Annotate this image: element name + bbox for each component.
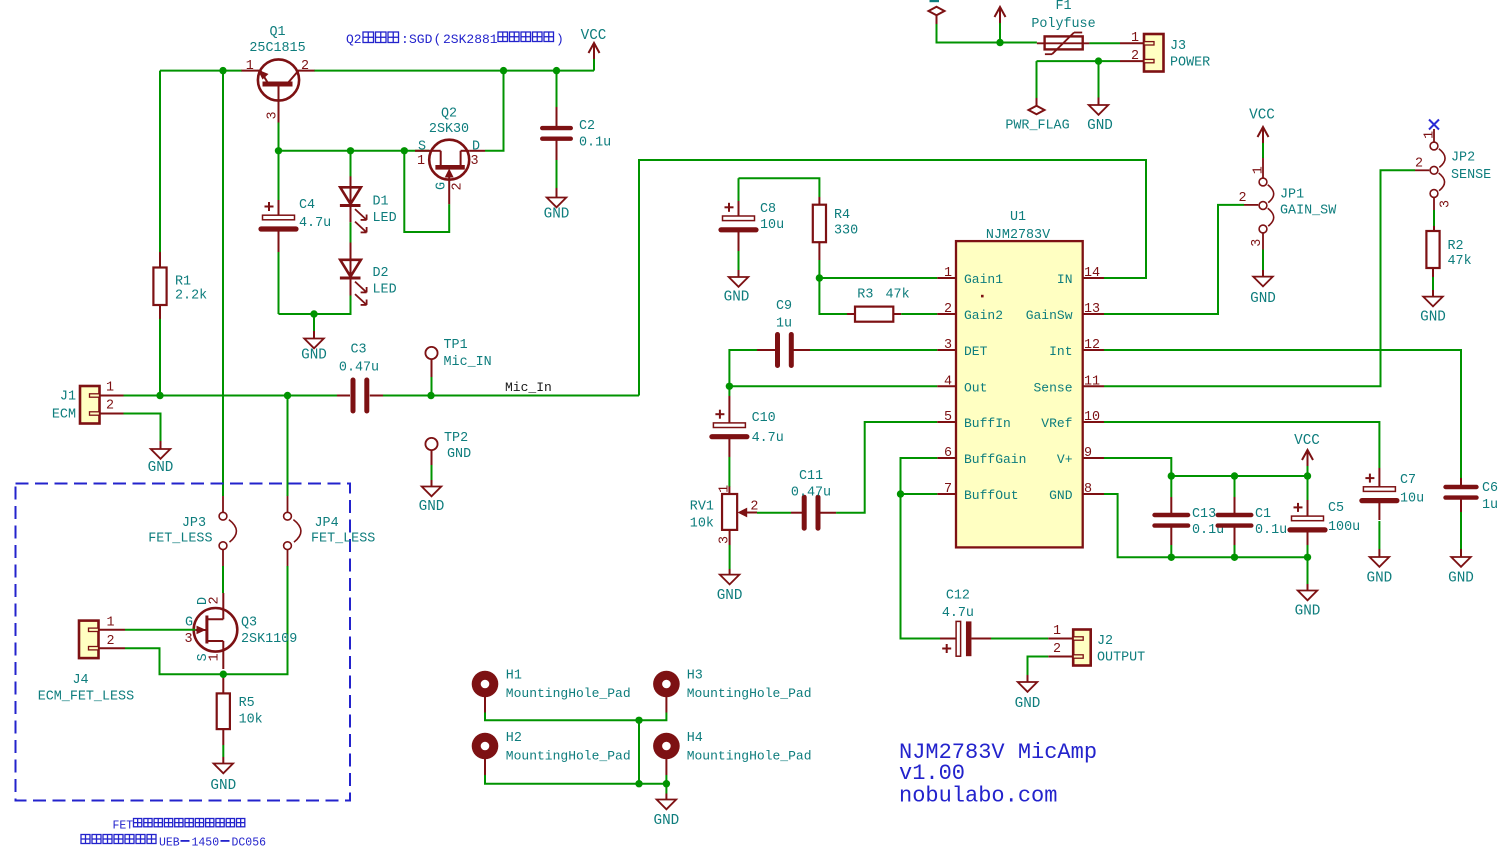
ground under C6	[1448, 549, 1474, 587]
connector J3 POWER	[1120, 31, 1210, 72]
wire C11 to BuffIn	[836, 422, 937, 513]
junction gnd rail	[310, 310, 317, 317]
svg-text:1: 1	[246, 59, 254, 74]
wire C12 to J2	[991, 638, 1048, 640]
svg-text:3: 3	[265, 111, 280, 119]
svg-text:NJM2783V: NJM2783V	[986, 228, 1050, 243]
junction Gain1 node	[816, 274, 823, 281]
capacitor C6	[1446, 478, 1499, 549]
svg-text:nobulabo.com: nobulabo.com	[899, 784, 1057, 809]
svg-text:VRef: VRef	[1041, 416, 1072, 431]
ground under J3	[1087, 61, 1113, 134]
ground under C5	[1295, 557, 1321, 619]
svg-text:2: 2	[1053, 642, 1061, 657]
svg-text:S: S	[418, 140, 426, 155]
svg-text:C7: C7	[1400, 473, 1416, 488]
svg-text:GND: GND	[717, 588, 743, 604]
svg-text:Polyfuse: Polyfuse	[1031, 17, 1095, 32]
svg-text:2SK2881: 2SK2881	[443, 32, 498, 47]
svg-text:3: 3	[944, 338, 952, 353]
capacitor C11	[757, 469, 836, 528]
svg-text:C13: C13	[1192, 507, 1216, 522]
capacitor C9	[757, 299, 810, 366]
capacitor C8	[721, 178, 784, 270]
mounting hole H3	[653, 669, 811, 713]
svg-text:R1: R1	[175, 275, 191, 290]
svg-text:C2: C2	[579, 119, 595, 134]
op-amp U1 NJM2783V	[937, 210, 1104, 547]
wire Sense to JP2	[1104, 170, 1415, 386]
svg-text:0.47u: 0.47u	[791, 486, 831, 501]
svg-text:J3: J3	[1170, 39, 1186, 54]
svg-text:47k: 47k	[886, 288, 910, 303]
junction H rail	[635, 717, 642, 724]
svg-text:0.1u: 0.1u	[579, 136, 611, 151]
wire R4 to Gain1	[818, 260, 820, 278]
svg-text:ECM: ECM	[52, 408, 76, 423]
svg-text:DET: DET	[964, 344, 988, 359]
wire VRef to C7	[1104, 422, 1379, 468]
wire Q1 collector to node	[278, 123, 280, 151]
wire J4 pin1 to gate	[125, 629, 195, 631]
svg-text:2: 2	[106, 634, 114, 649]
svg-text:2SK30: 2SK30	[429, 122, 469, 137]
wire J1 pin2 to gnd	[124, 414, 161, 442]
wire fuse to J3 pin1	[1089, 42, 1120, 44]
jumper JP3	[148, 496, 236, 566]
wire H2-H4 rail	[485, 775, 666, 784]
wire JP4 to source node	[223, 566, 287, 674]
svg-text:ECM_FET_LESS: ECM_FET_LESS	[38, 690, 134, 705]
note Q2 pinout (Japanese)	[346, 32, 564, 47]
svg-text:GND: GND	[301, 348, 327, 364]
capacitor C1	[1218, 476, 1287, 557]
svg-text:BuffGain: BuffGain	[964, 452, 1026, 467]
svg-text:2.2k: 2.2k	[175, 289, 207, 304]
wire mic riser to U1 IN	[639, 160, 1146, 396]
capacitor C12	[940, 589, 991, 657]
wire J4 pin2 to source node	[125, 648, 223, 674]
junction JP4 tap	[284, 392, 291, 399]
svg-text:F1: F1	[1055, 0, 1071, 14]
wire mic rail to C3	[160, 395, 337, 397]
resistor R4	[813, 197, 858, 260]
junction top rail x=223	[219, 67, 226, 74]
svg-text:GND: GND	[419, 499, 445, 515]
svg-text:1: 1	[1422, 131, 1437, 139]
svg-text:GND: GND	[1015, 696, 1041, 712]
svg-text:GND: GND	[544, 207, 570, 223]
wire D1-D2	[350, 222, 352, 242]
junction drain riser top	[500, 67, 507, 74]
svg-text:C1: C1	[1255, 507, 1271, 522]
svg-text:2: 2	[1238, 191, 1246, 206]
transistor Q3	[184, 593, 297, 669]
wire Q2 drain riser	[469, 71, 503, 151]
svg-text:1: 1	[106, 381, 114, 396]
svg-text:GND: GND	[1049, 488, 1073, 503]
junction C1 bottom	[1231, 554, 1238, 561]
svg-text:MountingHole_Pad: MountingHole_Pad	[506, 749, 631, 764]
junction collector node	[275, 147, 282, 154]
jumper JP2 SENSE	[1415, 129, 1491, 208]
no-connect X on JP2 pin1	[1429, 120, 1439, 130]
junction BuffOut node	[897, 490, 904, 497]
capacitor C5	[1290, 476, 1360, 557]
svg-text:Mic_In: Mic_In	[505, 380, 552, 395]
svg-text:v1.00: v1.00	[899, 761, 965, 786]
svg-text:13: 13	[1084, 302, 1100, 317]
power VCC above C5	[1294, 433, 1320, 476]
svg-text:D2: D2	[373, 266, 389, 281]
wire J3 pin2 gnd rail	[1037, 60, 1121, 62]
note FET-less mic (Japanese) line2	[81, 835, 266, 850]
svg-text:GND: GND	[1367, 571, 1393, 587]
mounting hole H2	[472, 731, 631, 775]
wire JP3 riser	[222, 71, 224, 496]
svg-text:BuffIn: BuffIn	[964, 416, 1011, 431]
svg-text:LED: LED	[373, 283, 397, 298]
svg-text:FET: FET	[113, 820, 134, 833]
text PWR_FLAG cut fragment	[930, 0, 940, 2]
svg-text:9: 9	[1084, 446, 1092, 461]
svg-text:GND: GND	[210, 778, 236, 794]
wire U1 GND pin to cap gnd rail	[1104, 494, 1308, 557]
svg-text:GND: GND	[1250, 291, 1276, 307]
svg-text:R4: R4	[834, 208, 850, 223]
svg-text:): )	[556, 32, 564, 47]
svg-text:Q1: Q1	[269, 25, 285, 40]
svg-text:10k: 10k	[239, 713, 263, 728]
ground under C7	[1367, 549, 1393, 587]
svg-text:1: 1	[1131, 31, 1139, 46]
svg-text:3: 3	[470, 154, 478, 169]
svg-text:H3: H3	[687, 669, 703, 684]
junction C5 top	[1304, 472, 1311, 479]
mounting hole H1	[472, 669, 631, 713]
capacitor C10	[712, 386, 784, 487]
svg-text:R2: R2	[1448, 239, 1464, 254]
svg-text:2SK1109: 2SK1109	[241, 632, 297, 647]
svg-text:2: 2	[106, 399, 114, 414]
ground under J1	[148, 441, 174, 476]
svg-text:GND: GND	[724, 290, 750, 306]
wire GainSw to JP1	[1104, 205, 1244, 314]
dashed option box	[16, 484, 351, 801]
potentiometer RV1	[690, 485, 759, 545]
svg-text:47k: 47k	[1448, 254, 1472, 269]
svg-text:Gain2: Gain2	[964, 308, 1003, 323]
svg-text:11: 11	[1084, 374, 1100, 389]
svg-text:TP1: TP1	[444, 338, 468, 353]
junction C13 bottom	[1168, 554, 1175, 561]
ground under C4/D2	[301, 314, 327, 364]
junction Q2 gate/source tie	[401, 147, 408, 154]
svg-text:0.47u: 0.47u	[339, 361, 379, 376]
svg-text:C3: C3	[350, 343, 366, 358]
junction Out node	[726, 383, 733, 390]
ground under H4	[654, 784, 680, 829]
svg-text:7: 7	[944, 482, 952, 497]
wire C8 to R4 top	[739, 178, 820, 197]
svg-text:J4: J4	[73, 673, 89, 688]
svg-text:J1: J1	[60, 390, 76, 405]
svg-text:1: 1	[1252, 166, 1267, 174]
mounting hole H4	[653, 731, 811, 775]
svg-text:1: 1	[208, 653, 223, 661]
svg-text:100u: 100u	[1328, 520, 1360, 535]
svg-text:U1: U1	[1010, 210, 1026, 225]
svg-text:MountingHole_Pad: MountingHole_Pad	[506, 686, 631, 701]
junction TP1 tap	[427, 392, 434, 399]
svg-text:C9: C9	[776, 299, 792, 314]
svg-text:3: 3	[717, 536, 732, 544]
wire junction to D1	[350, 151, 352, 177]
svg-text:Mic_IN: Mic_IN	[444, 355, 492, 370]
svg-text:8: 8	[1084, 482, 1092, 497]
svg-text:1450: 1450	[192, 837, 220, 850]
wire VCC top rail right	[314, 70, 594, 72]
svg-text:BuffOut: BuffOut	[964, 488, 1019, 503]
svg-text:GAIN_SW: GAIN_SW	[1280, 204, 1337, 219]
capacitor C13	[1155, 476, 1225, 557]
power flag PWR_FLAG (GND)	[1005, 61, 1069, 133]
resistor R3	[847, 288, 910, 322]
svg-text:GND: GND	[1448, 571, 1474, 587]
wire Q2 gate loop	[404, 151, 449, 232]
power VCC at input	[995, 7, 1006, 43]
svg-text:G: G	[434, 182, 449, 190]
junction H2 rail	[635, 780, 642, 787]
wire Out node to U1 pin4	[729, 385, 937, 387]
ground under RV1	[717, 545, 743, 604]
LED D2	[340, 243, 397, 305]
svg-text:D1: D1	[373, 195, 389, 210]
junction C5 bottom	[1304, 554, 1311, 561]
svg-text:2: 2	[1131, 49, 1139, 64]
svg-text:GND: GND	[1295, 604, 1321, 620]
svg-text:Int: Int	[1049, 344, 1072, 359]
svg-text:POWER: POWER	[1170, 56, 1210, 71]
svg-text:H2: H2	[506, 731, 522, 746]
connector J2 OUTPUT	[1048, 624, 1145, 666]
wire H rail down	[638, 720, 640, 783]
svg-text:10k: 10k	[690, 517, 714, 532]
svg-text:VCC: VCC	[1249, 108, 1275, 124]
svg-text:4: 4	[944, 374, 952, 389]
svg-text:GainSw: GainSw	[1026, 308, 1073, 323]
svg-text:12: 12	[1084, 338, 1100, 353]
svg-text:Out: Out	[964, 380, 987, 395]
wire C9 right to DET	[810, 349, 937, 351]
svg-text:C8: C8	[760, 202, 776, 217]
junction vcc input	[996, 39, 1003, 46]
svg-text:330: 330	[834, 224, 858, 239]
wire H1-H3 rail	[485, 713, 666, 721]
svg-text:JP3: JP3	[182, 516, 206, 531]
svg-text:C12: C12	[946, 589, 970, 604]
svg-text:C11: C11	[799, 469, 823, 484]
svg-text:OUTPUT: OUTPUT	[1097, 651, 1145, 666]
svg-text:D: D	[472, 140, 480, 155]
LED D1	[340, 176, 397, 232]
test point TP1	[425, 338, 491, 396]
svg-text:(: (	[434, 32, 442, 47]
svg-text:FET_LESS: FET_LESS	[148, 532, 212, 547]
svg-text:DC056: DC056	[232, 837, 267, 850]
svg-text:G: G	[185, 616, 193, 631]
wire VCC top rail left	[160, 70, 242, 72]
svg-text:R3: R3	[857, 288, 873, 303]
capacitor C2	[542, 71, 611, 188]
svg-text:Gain1: Gain1	[964, 272, 1003, 287]
svg-text:2: 2	[301, 59, 309, 74]
svg-text:10u: 10u	[1400, 492, 1424, 507]
wire JP3 to Q3 drain	[222, 566, 224, 593]
svg-text:VCC: VCC	[1294, 433, 1320, 449]
svg-text:1u: 1u	[1482, 498, 1498, 513]
svg-text:GND: GND	[654, 813, 680, 829]
note FET-less mic (Japanese) line1	[113, 819, 245, 833]
wire Int to C6	[1104, 350, 1461, 478]
wire J1 pin1 to rail	[124, 395, 161, 397]
ground under R5	[210, 745, 236, 794]
svg-text:2: 2	[450, 182, 465, 190]
svg-text:R5: R5	[239, 696, 255, 711]
svg-text:1u: 1u	[776, 317, 792, 332]
svg-text:6: 6	[944, 446, 952, 461]
wire left vertical to J1/R1	[159, 71, 161, 396]
svg-text:JP2: JP2	[1451, 151, 1475, 166]
svg-text:H1: H1	[506, 669, 522, 684]
ground under C8	[724, 270, 750, 306]
title NJM2783V MicAmp	[899, 740, 1097, 809]
svg-text:1: 1	[106, 616, 114, 631]
connector J4 ECM_FET_LESS	[38, 616, 134, 705]
svg-text:2: 2	[1415, 157, 1423, 172]
svg-text:Q3: Q3	[241, 616, 257, 631]
svg-text:3: 3	[184, 632, 192, 647]
svg-text:PWR_FLAG: PWR_FLAG	[1005, 119, 1069, 134]
wire Gain1 to U1 pin1	[819, 277, 937, 279]
svg-text:3: 3	[1438, 200, 1453, 208]
test point TP2	[419, 431, 471, 515]
junction gnd rail	[1095, 57, 1102, 64]
resistor R1	[153, 252, 207, 319]
power flag PWR_FLAG (VCC)	[929, 7, 1037, 43]
svg-text:0.1u: 0.1u	[1255, 523, 1287, 538]
svg-text:C10: C10	[752, 411, 776, 426]
wire BuffGain/BuffOut to C12	[901, 458, 941, 639]
svg-text:H4: H4	[687, 731, 703, 746]
ground under R2	[1420, 277, 1446, 326]
svg-text:10: 10	[1084, 410, 1100, 425]
svg-text:25C1815: 25C1815	[249, 41, 305, 56]
svg-text:JP1: JP1	[1280, 188, 1304, 203]
svg-text:V+: V+	[1057, 452, 1073, 467]
capacitor C4	[261, 151, 331, 314]
svg-text:10u: 10u	[760, 218, 784, 233]
transistor Q1	[242, 25, 315, 123]
svg-text:LED: LED	[373, 211, 397, 226]
svg-text:UEB: UEB	[159, 837, 180, 850]
svg-text:C4: C4	[299, 198, 315, 213]
jumper JP1 GAIN_SW	[1238, 158, 1337, 247]
ground under JP1	[1250, 233, 1276, 307]
svg-text:14: 14	[1084, 266, 1100, 281]
wire Gain1 node down to R3	[819, 278, 847, 314]
power VCC above JP1	[1249, 108, 1275, 159]
junction H4 tap	[663, 780, 670, 787]
svg-text:4.7u: 4.7u	[752, 431, 784, 446]
svg-text:GND: GND	[148, 460, 174, 476]
fuse F1 Polyfuse	[1031, 0, 1095, 54]
power VCC top	[581, 28, 607, 71]
ground under C2	[544, 188, 570, 223]
wire J2 pin2 to gnd	[1028, 657, 1049, 676]
svg-text:GND: GND	[1087, 118, 1113, 134]
svg-text:C6: C6	[1482, 481, 1498, 496]
junction D1 tap	[347, 147, 354, 154]
svg-text:1: 1	[417, 154, 425, 169]
wire source to R5	[222, 674, 224, 678]
svg-text:1: 1	[1053, 624, 1061, 639]
svg-text:SGD: SGD	[409, 32, 433, 47]
svg-text:TP2: TP2	[444, 431, 468, 446]
svg-text:Sense: Sense	[1033, 380, 1072, 395]
svg-text:1: 1	[944, 266, 952, 281]
wire BuffOut	[901, 493, 938, 495]
svg-text:MountingHole_Pad: MountingHole_Pad	[687, 686, 812, 701]
svg-text:J2: J2	[1097, 634, 1113, 649]
wire R3 to Gain2	[901, 313, 937, 315]
svg-text:FET_LESS: FET_LESS	[311, 532, 375, 547]
svg-text:RV1: RV1	[690, 500, 714, 515]
junction C13 top	[1168, 472, 1175, 479]
ground under J2	[1015, 675, 1041, 712]
wire C9 left to Out node	[729, 350, 757, 386]
svg-text::: :	[401, 32, 409, 47]
svg-text:2: 2	[208, 596, 223, 604]
jumper JP4	[284, 396, 376, 567]
resistor R2	[1426, 197, 1471, 277]
svg-text:JP4: JP4	[315, 516, 339, 531]
svg-text:IN: IN	[1057, 272, 1073, 287]
svg-text:MountingHole_Pad: MountingHole_Pad	[687, 749, 812, 764]
svg-text:VCC: VCC	[581, 28, 607, 44]
svg-text:GND: GND	[1420, 310, 1446, 326]
junction source node	[220, 671, 227, 678]
svg-text:4.7u: 4.7u	[942, 606, 974, 621]
capacitor C7	[1362, 468, 1424, 549]
wire C3 to riser	[383, 395, 639, 397]
resistor R5	[217, 678, 263, 745]
junction C1 top	[1231, 472, 1238, 479]
svg-text:5: 5	[944, 410, 952, 425]
svg-text:1: 1	[717, 485, 732, 493]
svg-text:SENSE: SENSE	[1451, 168, 1491, 183]
wire collector rail y150	[279, 150, 430, 152]
wire D2 to gnd rail	[279, 296, 351, 315]
svg-text:Q2: Q2	[346, 32, 362, 47]
capacitor C3	[337, 343, 383, 412]
svg-text:2: 2	[944, 302, 952, 317]
junction C2 top	[553, 67, 560, 74]
svg-text:Q2: Q2	[441, 107, 457, 122]
wire V+ to cap rail	[1104, 458, 1308, 476]
junction J1/R1	[156, 392, 163, 399]
svg-text:GND: GND	[447, 447, 471, 462]
